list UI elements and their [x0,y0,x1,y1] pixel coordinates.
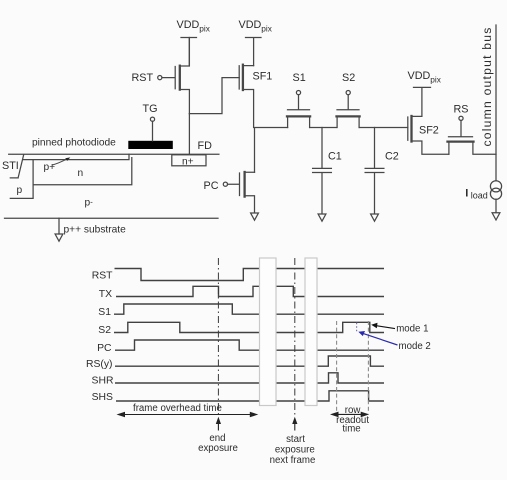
svg-text:FD: FD [198,140,213,152]
transistor S2 [337,91,360,128]
svg-text:I: I [465,188,468,200]
time-break box 2 [305,258,317,406]
svg-text:PC: PC [97,343,112,354]
svg-text:load: load [471,191,488,201]
waveform SHR [115,373,384,383]
timing diagram [114,269,384,402]
svg-text:mode 1: mode 1 [396,324,428,335]
svg-text:p++ substrate: p++ substrate [64,225,127,236]
dotted S2 mode-2 falling edge [356,323,358,333]
annotation mode 2 [358,331,431,352]
svg-text:SHS: SHS [92,392,113,403]
wire FD vertical [188,114,190,155]
svg-text:start: start [286,434,305,445]
annotation row readout time [330,405,369,434]
transistor TG gate electrode [128,117,173,149]
svg-text:RS: RS [454,103,469,115]
transistor S1 [287,91,310,128]
power VDD_pix rail 3 (SF2 drain) [414,87,431,116]
wire bus S2 to SF2 with C2 tap [359,127,408,129]
wire SF1 source / PC drain vertical and output bus [255,128,288,173]
ground (substrate) [55,218,63,241]
ground (C1) [318,214,326,221]
svg-text:RST: RST [92,271,113,282]
svg-text:pinned photodiode: pinned photodiode [32,137,116,148]
svg-text:STI: STI [2,160,19,172]
waveform PC [115,340,384,350]
p+ label arrow [52,157,70,165]
svg-text:TX: TX [99,289,112,300]
svg-text:RS(y): RS(y) [86,359,113,370]
svg-text:SF2: SF2 [419,124,439,136]
svg-text:RST: RST [132,72,154,84]
svg-text:S2: S2 [98,325,111,336]
waveform TX [116,286,384,296]
svg-text:exposure: exposure [275,445,315,456]
ground (column bus) [492,213,500,220]
annotation start exposure next frame [270,417,316,466]
n well region [10,158,132,199]
STI trench edge [10,155,23,178]
svg-text:n+: n+ [182,156,194,167]
transistor RS [448,116,497,154]
power VDD_pix rail 1 (RST drain) [181,38,197,66]
substrate line [5,217,219,219]
annotation end exposure [198,417,238,454]
wire FD node to SF1 gate [189,78,239,114]
ground (PC source) [251,213,259,220]
svg-text:PC: PC [204,180,219,192]
column output bus wire [495,25,497,181]
dash-dot marker end exposure [217,258,219,418]
svg-text:n: n [78,168,84,179]
dash-dot marker start exposure [294,258,296,418]
annotation mode 1 [371,323,428,335]
p+ pinning layer [23,154,129,159]
svg-text:p+: p+ [44,162,56,173]
ground (C2) [371,214,379,221]
svg-text:S2: S2 [342,72,355,84]
power VDD_pix rail 2 (SF1 drain) [246,38,262,66]
capacitor C2 [365,128,384,214]
svg-text:frame overhead time: frame overhead time [133,403,222,414]
svg-text:p: p [17,185,23,196]
transistor SF2 [408,116,449,154]
svg-text:exposure: exposure [198,443,238,454]
waveform RS(y) [115,356,384,366]
waveform SHS [116,391,384,401]
waveform S1 [114,304,384,314]
transistor SF1 [239,65,253,128]
svg-text:C1: C1 [328,150,342,162]
time-break box 1 [260,258,277,406]
waveform S2 [114,322,384,332]
svg-text:next frame: next frame [270,455,316,466]
transistor RST [158,38,190,114]
n+ diffusion box (FD) [172,155,206,166]
wire bus S1 to S2 with C1 tap [310,127,337,129]
svg-text:TG: TG [143,103,158,115]
svg-text:SHR: SHR [92,376,114,387]
capacitor C1 [313,128,332,214]
annotation frame overhead time [117,403,259,417]
svg-text:column output bus: column output bus [480,27,494,147]
svg-text:S1: S1 [98,307,111,318]
dashed marker row readout start [336,321,338,414]
pinned photodiode surface line [9,153,219,155]
svg-text:C2: C2 [385,150,399,162]
current source I_load [490,181,501,213]
svg-text:S1: S1 [293,72,306,84]
svg-text:time: time [342,423,360,434]
dashed marker row readout end [367,321,369,414]
svg-text:SF1: SF1 [253,71,273,83]
svg-text:mode 2: mode 2 [399,341,431,352]
waveform RST [115,269,385,281]
transistor PC [223,172,254,213]
